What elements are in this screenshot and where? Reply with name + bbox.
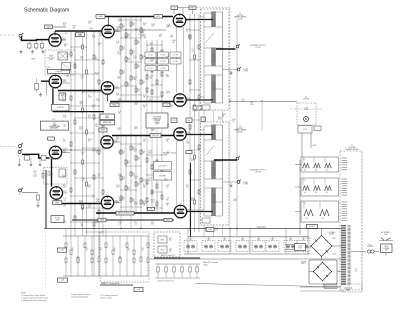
svg-text:0.05: 0.05	[63, 25, 66, 27]
svg-text:470K: 470K	[118, 100, 122, 102]
svg-text:D-1: D-1	[326, 192, 329, 194]
svg-text:250V: 250V	[134, 104, 138, 106]
svg-text:38605: 38605	[112, 104, 116, 106]
svg-text:C41: C41	[188, 120, 191, 122]
svg-text:R16: R16	[62, 175, 65, 177]
svg-text:22K: 22K	[143, 141, 146, 143]
svg-text:4700: 4700	[298, 247, 302, 249]
svg-text:R16: R16	[143, 95, 146, 97]
svg-text:C9: C9	[97, 98, 99, 100]
svg-text:C-105 33: C-105 33	[57, 107, 64, 109]
svg-text:R104: R104	[134, 176, 138, 178]
svg-text:R14: R14	[142, 201, 145, 203]
svg-text:C9: C9	[81, 223, 83, 225]
svg-text:C-105: C-105	[46, 67, 50, 69]
svg-text:100: 100	[166, 154, 169, 156]
svg-text:470K: 470K	[166, 152, 170, 154]
svg-text:47K: 47K	[137, 67, 140, 69]
svg-text:4 OHM: 4 OHM	[243, 71, 249, 73]
svg-text:R-C NET: R-C NET	[148, 68, 154, 70]
svg-text:.022: .022	[97, 175, 100, 177]
svg-text:C9: C9	[168, 24, 170, 26]
svg-text:R104: R104	[117, 26, 121, 28]
svg-text:R118: R118	[152, 24, 156, 26]
svg-text:R104: R104	[95, 72, 99, 74]
svg-text:470K: 470K	[119, 198, 123, 200]
svg-text:T3: T3	[239, 126, 241, 128]
svg-text:R16: R16	[118, 151, 121, 153]
svg-text:C104: C104	[90, 28, 94, 30]
svg-text:100: 100	[166, 58, 169, 60]
svg-text:R104: R104	[218, 117, 222, 119]
svg-text:C9: C9	[92, 195, 94, 197]
svg-text:MAIN P.C.board(2/3): MAIN P.C.board(2/3)	[101, 282, 120, 285]
svg-text:C-21: C-21	[66, 54, 69, 56]
svg-text:R104: R104	[98, 43, 102, 45]
svg-text:R-C NET: R-C NET	[173, 61, 179, 63]
svg-text:R104: R104	[172, 40, 176, 42]
svg-text:IN: IN	[19, 39, 20, 41]
svg-text:R14: R14	[132, 23, 135, 25]
svg-text:0.05: 0.05	[88, 207, 91, 209]
svg-text:470K: 470K	[133, 149, 137, 151]
svg-text:.022: .022	[80, 77, 83, 79]
svg-text:R118: R118	[81, 152, 85, 154]
svg-text:R104: R104	[134, 202, 138, 204]
svg-text:C-109: C-109	[303, 129, 307, 131]
svg-text:470K: 470K	[170, 37, 174, 39]
svg-text:R118: R118	[170, 105, 174, 107]
svg-text:C-11: C-11	[303, 180, 306, 182]
svg-text:R104: R104	[73, 26, 77, 28]
svg-text:R16: R16	[204, 228, 207, 230]
svg-text:470K: 470K	[117, 53, 121, 55]
svg-text:R1: R1	[142, 248, 144, 250]
svg-text:R104: R104	[118, 19, 122, 21]
svg-text:C-21: C-21	[95, 220, 98, 222]
svg-text:47K: 47K	[132, 25, 135, 27]
svg-text:R104: R104	[88, 139, 92, 141]
svg-text:R-C NET: R-C NET	[148, 54, 154, 56]
svg-text:680: 680	[79, 36, 82, 38]
svg-text:22K: 22K	[95, 222, 98, 224]
svg-text:.022: .022	[134, 178, 137, 180]
svg-text:R16: R16	[63, 185, 66, 187]
svg-text:R14: R14	[127, 34, 130, 36]
svg-text:250V: 250V	[116, 187, 120, 189]
svg-text:C-21: C-21	[63, 115, 66, 117]
svg-text:250V: 250V	[88, 97, 92, 99]
svg-text:470K: 470K	[166, 93, 170, 95]
svg-text:470K: 470K	[151, 223, 155, 225]
svg-text:D-1: D-1	[306, 218, 309, 220]
svg-text:R104: R104	[186, 29, 190, 31]
svg-text:100: 100	[66, 56, 69, 58]
svg-text:C104: C104	[166, 91, 170, 93]
svg-text:C9: C9	[149, 99, 151, 101]
svg-text:J202: J202	[356, 268, 358, 272]
svg-text:R118: R118	[92, 105, 96, 107]
svg-text:R118: R118	[64, 44, 68, 46]
svg-text:R14: R14	[142, 56, 145, 58]
svg-text:0.05: 0.05	[88, 187, 91, 189]
svg-text:C-21: C-21	[118, 111, 121, 113]
svg-text:D-1: D-1	[315, 192, 318, 194]
svg-text:4K: 4K	[142, 250, 144, 252]
svg-text:47K: 47K	[127, 163, 130, 165]
svg-text:47K: 47K	[137, 43, 140, 45]
svg-text:V101: V101	[186, 19, 190, 21]
svg-text:470K: 470K	[218, 119, 222, 121]
svg-text:8 OHM: 8 OHM	[243, 182, 249, 184]
svg-text:470K: 470K	[96, 199, 100, 201]
svg-text:250V: 250V	[191, 200, 195, 202]
svg-text:R14: R14	[137, 65, 140, 67]
svg-text:100: 100	[186, 187, 189, 189]
svg-text:+455V: +455V	[312, 145, 316, 147]
svg-text:C9: C9	[88, 95, 90, 97]
svg-text:250V: 250V	[62, 177, 66, 179]
svg-text:22K: 22K	[90, 30, 93, 32]
svg-text:R-C NET: R-C NET	[160, 54, 166, 56]
svg-text:R-T2: R-T2	[157, 16, 160, 18]
svg-text:(1/3): (1/3)	[203, 264, 208, 266]
svg-text:470K: 470K	[232, 119, 236, 121]
svg-text:R14: R14	[132, 173, 135, 175]
svg-text:RECT: RECT	[301, 263, 305, 265]
svg-text:R16: R16	[81, 56, 84, 58]
svg-text:R16: R16	[143, 185, 146, 187]
svg-text:.022: .022	[133, 150, 136, 152]
svg-text:38804: 38804	[166, 220, 170, 222]
svg-text:V101: V101	[62, 38, 66, 40]
svg-text:C-21: C-21	[151, 128, 154, 130]
svg-text:R16: R16	[92, 35, 95, 37]
svg-text:R104: R104	[166, 139, 170, 141]
svg-text:C9: C9	[62, 99, 64, 101]
svg-text:47K: 47K	[137, 185, 140, 187]
svg-text:R104: R104	[99, 33, 103, 35]
svg-text:(1of3): (1of3)	[47, 175, 52, 177]
svg-text:47K: 47K	[142, 58, 145, 60]
svg-text:NOTE:: NOTE:	[21, 293, 27, 295]
svg-text:CHOKE: CHOKE	[303, 99, 310, 101]
svg-text:0.05: 0.05	[99, 35, 102, 37]
svg-text:D-1: D-1	[315, 169, 318, 171]
svg-text:C104: C104	[97, 174, 101, 176]
svg-text:D103: D103	[307, 254, 311, 256]
svg-text:0.05: 0.05	[117, 129, 120, 131]
svg-text:.022: .022	[191, 51, 194, 53]
svg-text:R118: R118	[63, 23, 67, 25]
svg-text:250V: 250V	[97, 100, 101, 102]
svg-text:0.05: 0.05	[151, 201, 154, 203]
svg-text:C-11: C-11	[303, 159, 306, 161]
svg-text:R1: R1	[114, 248, 116, 250]
svg-text:4K: 4K	[86, 250, 88, 252]
svg-text:470K: 470K	[116, 43, 120, 45]
svg-text:470K: 470K	[92, 37, 96, 39]
svg-text:R118: R118	[222, 114, 226, 116]
svg-text:100: 100	[95, 126, 98, 128]
svg-text:R14: R14	[137, 183, 140, 185]
svg-text:TRANSFORMER: TRANSFORMER	[345, 148, 359, 151]
svg-text:C-86: C-86	[60, 250, 63, 252]
svg-text:47K: 47K	[142, 153, 145, 155]
svg-text:.022: .022	[117, 78, 120, 80]
svg-text:C-21: C-21	[166, 198, 169, 200]
svg-text:0.05: 0.05	[215, 230, 218, 232]
svg-text:R118: R118	[188, 36, 192, 38]
svg-text:18605: 18605	[101, 130, 105, 132]
svg-text:22K: 22K	[144, 38, 147, 40]
svg-text:0.05: 0.05	[94, 59, 97, 61]
svg-text:47K: 47K	[122, 73, 125, 75]
svg-text:250V: 250V	[88, 23, 92, 25]
svg-text:V101: V101	[187, 98, 191, 100]
svg-text:C-21: C-21	[191, 158, 194, 160]
svg-text:R16: R16	[116, 137, 119, 139]
svg-text:C104: C104	[150, 76, 154, 78]
svg-text:R1: R1	[128, 248, 130, 250]
svg-text:.022: .022	[134, 223, 137, 225]
svg-text:C-21: C-21	[116, 41, 119, 43]
svg-text:IN: IN	[19, 194, 20, 196]
svg-text:R14: R14	[122, 177, 125, 179]
svg-text:C9: C9	[116, 201, 118, 203]
svg-text:C-87: C-87	[61, 280, 64, 282]
svg-text:.022: .022	[63, 222, 66, 224]
svg-text:470K: 470K	[186, 143, 190, 145]
svg-text:C-21: C-21	[117, 128, 120, 130]
svg-text:5 W: 5 W	[56, 219, 59, 221]
svg-text:C104: C104	[148, 151, 152, 153]
svg-text:C9: C9	[63, 220, 65, 222]
svg-text:R14: R14	[137, 41, 140, 43]
svg-text:R118: R118	[191, 7, 195, 9]
svg-text:4K: 4K	[128, 250, 130, 252]
svg-text:47K: 47K	[127, 60, 130, 62]
svg-text:470K: 470K	[250, 102, 254, 104]
svg-text:470K: 470K	[134, 204, 138, 206]
svg-text:OUTPUT: OUTPUT	[237, 128, 244, 130]
svg-text:C-21: C-21	[33, 176, 36, 178]
svg-text:100: 100	[194, 110, 197, 112]
svg-text:R104: R104	[63, 94, 67, 96]
svg-text:0.05: 0.05	[204, 230, 207, 232]
svg-text:C-21: C-21	[148, 178, 151, 180]
svg-text:680: 680	[166, 199, 169, 201]
svg-text:V101: V101	[187, 210, 191, 212]
svg-text:47K: 47K	[122, 27, 125, 29]
svg-text:100: 100	[92, 107, 95, 109]
svg-text:R16: R16	[186, 185, 189, 187]
svg-text:R1: R1	[86, 248, 88, 250]
svg-text:R14: R14	[132, 147, 135, 149]
svg-text:R77: R77	[173, 120, 176, 122]
svg-text:R14: R14	[127, 161, 130, 163]
svg-text:470K: 470K	[165, 180, 169, 182]
svg-text:470K: 470K	[148, 152, 152, 154]
svg-text:470K: 470K	[159, 34, 163, 36]
svg-text:C-2: C-2	[165, 104, 168, 106]
svg-text:R14: R14	[122, 47, 125, 49]
svg-text:(R-CH): (R-CH)	[255, 171, 261, 173]
svg-text:470K: 470K	[116, 95, 120, 97]
svg-text:(L-CH): (L-CH)	[255, 47, 260, 49]
svg-text:22K: 22K	[79, 128, 82, 130]
svg-text:.022: .022	[134, 30, 137, 32]
svg-text:C104: C104	[134, 126, 138, 128]
svg-text:250V: 250V	[166, 76, 170, 78]
svg-text:470K: 470K	[62, 100, 66, 102]
svg-text:VR2: VR2	[169, 249, 172, 251]
svg-text:R104: R104	[143, 203, 147, 205]
svg-text:PUSH-PULL: PUSH-PULL	[153, 118, 162, 120]
svg-text:250V: 250V	[95, 74, 99, 76]
svg-text:R16: R16	[125, 36, 128, 38]
svg-text:250V: 250V	[148, 180, 152, 182]
svg-text:0.05: 0.05	[116, 203, 119, 205]
svg-text:V101: V101	[187, 132, 191, 134]
svg-text:0.05: 0.05	[66, 76, 69, 78]
svg-text:R118: R118	[166, 185, 170, 187]
svg-text:R14: R14	[122, 71, 125, 73]
svg-text:C-21: C-21	[88, 205, 91, 207]
svg-text:R16: R16	[88, 115, 91, 117]
svg-text:38807: 38807	[55, 202, 59, 204]
svg-text:33: 33	[46, 69, 48, 71]
svg-text:C9: C9	[65, 31, 67, 33]
svg-text:R14: R14	[122, 25, 125, 27]
svg-text:(1of2): (1of2)	[49, 59, 54, 61]
svg-text:.022: .022	[168, 26, 171, 28]
svg-text:R14: R14	[127, 187, 130, 189]
svg-text:V101: V101	[62, 80, 66, 82]
svg-text:0.05: 0.05	[88, 117, 91, 119]
svg-text:470K: 470K	[150, 58, 154, 60]
svg-text:C9: C9	[186, 141, 188, 143]
svg-text:C-21: C-21	[241, 99, 244, 101]
svg-text:C104: C104	[116, 185, 120, 187]
svg-text:C104: C104	[88, 21, 92, 23]
svg-text:R14: R14	[142, 151, 145, 153]
svg-text:C-21: C-21	[95, 150, 98, 152]
svg-text:R16: R16	[82, 178, 85, 180]
svg-text:470K: 470K	[215, 228, 219, 230]
svg-text:D104: D104	[333, 254, 337, 256]
svg-text:R-C NET: R-C NET	[160, 68, 166, 70]
svg-text:P.C.board: P.C.board	[48, 57, 55, 59]
svg-text:250V: 250V	[63, 150, 67, 152]
svg-text:R16: R16	[88, 185, 91, 187]
svg-text:680: 680	[118, 152, 121, 154]
svg-text:C9: C9	[63, 139, 65, 141]
svg-text:470K: 470K	[79, 202, 83, 204]
svg-text:22K: 22K	[92, 151, 95, 153]
svg-text:47K: 47K	[137, 159, 140, 161]
svg-text:C11: C11	[173, 7, 176, 9]
svg-text:R118: R118	[117, 52, 121, 54]
svg-text:C-21: C-21	[63, 198, 66, 200]
svg-text:18601: 18601	[47, 26, 51, 28]
svg-text:C9: C9	[63, 124, 65, 126]
svg-text:C-88: C-88	[137, 289, 140, 291]
svg-text:R1: R1	[72, 248, 74, 250]
svg-text:R118: R118	[79, 200, 83, 202]
svg-text:LOUD CNTL: LOUD CNTL	[158, 165, 167, 167]
svg-text:680: 680	[152, 25, 155, 27]
svg-text:470K: 470K	[134, 28, 138, 30]
svg-text:R16: R16	[166, 56, 169, 58]
svg-text:100: 100	[143, 25, 146, 27]
svg-text:470K: 470K	[119, 200, 123, 202]
svg-text:C-21: C-21	[134, 77, 137, 79]
svg-text:D-1: D-1	[304, 192, 307, 194]
svg-text:R14: R14	[137, 89, 140, 91]
svg-text:470K: 470K	[233, 200, 237, 202]
svg-text:C-21: C-21	[233, 199, 236, 201]
svg-text:V101: V101	[63, 191, 67, 193]
svg-text:.022: .022	[191, 160, 194, 162]
svg-text:C104: C104	[80, 76, 84, 78]
svg-text:680: 680	[65, 33, 68, 35]
svg-text:100: 100	[150, 45, 153, 47]
svg-text:C-21: C-21	[118, 174, 121, 176]
svg-text:22K: 22K	[118, 175, 121, 177]
svg-text:47K: 47K	[122, 49, 125, 51]
svg-text:POWER: POWER	[301, 262, 308, 264]
svg-text:D-1: D-1	[326, 169, 329, 171]
svg-text:470K: 470K	[151, 222, 155, 224]
svg-text:47K: 47K	[122, 179, 125, 181]
svg-text:0.05: 0.05	[63, 141, 66, 143]
svg-text:D101: D101	[307, 238, 311, 240]
svg-text:C-21: C-21	[133, 56, 136, 58]
svg-text:V101: V101	[114, 86, 118, 88]
svg-text:R14: R14	[132, 51, 135, 53]
svg-text:R104: R104	[143, 23, 147, 25]
svg-text:38803: 38803	[100, 220, 104, 222]
svg-text:R-C NET: R-C NET	[160, 61, 166, 63]
svg-text:250V: 250V	[116, 139, 120, 141]
svg-text:0.05: 0.05	[63, 96, 66, 98]
svg-text:C-21: C-21	[66, 74, 69, 76]
svg-text:470K: 470K	[133, 58, 137, 60]
svg-text:R16: R16	[116, 93, 119, 95]
svg-text:R16: R16	[166, 74, 169, 76]
svg-text:R14: R14	[132, 199, 135, 201]
svg-text:100: 100	[166, 187, 169, 189]
svg-text:470K: 470K	[118, 222, 122, 224]
svg-text:680: 680	[73, 27, 76, 29]
svg-text:C-8: C-8	[150, 208, 153, 210]
svg-text:470K: 470K	[63, 187, 67, 189]
svg-text:250V: 250V	[95, 152, 99, 154]
svg-text:R14: R14	[127, 83, 130, 85]
svg-text:OUTPUT: OUTPUT	[237, 15, 244, 17]
svg-text:47K: 47K	[142, 181, 145, 183]
svg-text:R104: R104	[143, 105, 147, 107]
svg-text:R-C NET: R-C NET	[148, 61, 154, 63]
svg-text:0.05: 0.05	[82, 180, 85, 182]
svg-text:R104: R104	[79, 127, 83, 129]
svg-text:4 OHM: 4 OHM	[243, 184, 249, 186]
svg-text:T2: T2	[239, 13, 241, 15]
svg-text:R16: R16	[95, 124, 98, 126]
svg-text:C-105 33: C-105 33	[55, 71, 61, 73]
svg-text:22K: 22K	[63, 206, 66, 208]
